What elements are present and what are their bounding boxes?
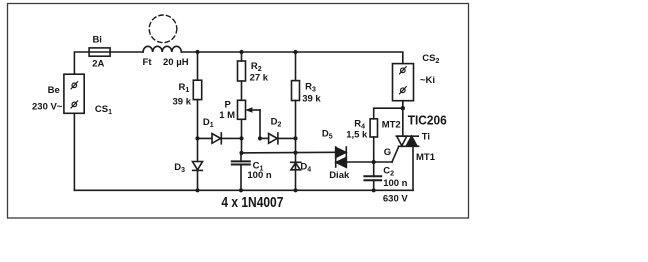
node top rail R2 [239,50,243,54]
svg-text:39 k: 39 k [302,93,321,104]
triac Ti TIC206 [396,136,418,146]
node R1 D1 D3 [195,136,199,140]
diode D1 [198,133,242,144]
inductor Ft 20 uH [143,46,181,52]
svg-text:G: G [384,147,391,158]
wire bottom rail [74,189,413,191]
node C2 rail [372,188,376,192]
wire gate G [392,146,399,162]
capacitor C1 100n [232,153,250,190]
fuse Bi 2A [89,48,110,56]
svg-text:100 n: 100 n [383,178,407,189]
capacitor C2 100n 630V [364,162,381,190]
svg-text:D3: D3 [174,162,185,174]
svg-text:Ti: Ti [422,132,430,143]
wire fuse to inductor [110,51,143,53]
diode D2 [260,133,296,144]
resistor R3 39k [292,52,300,138]
node D4 rail [293,188,297,192]
node C1 diac line [239,151,243,155]
svg-text:100 n: 100 n [247,170,271,181]
wire diac to gate [346,161,392,163]
svg-text:630 V: 630 V [383,193,408,204]
node D2 R3 [293,136,297,140]
svg-text:4 x 1N4007: 4 x 1N4007 [221,194,283,211]
node pot bottom [239,136,243,140]
wire MT1 [412,146,414,190]
node top rail R1 [195,50,199,54]
svg-text:P: P [225,99,232,110]
connector Be CS1 230V [64,74,84,113]
node D4 diac line [293,151,297,155]
diode D3 [193,138,203,190]
svg-text:20 µH: 20 µH [163,57,189,68]
dashed circle ferrite core [149,15,177,43]
svg-text:Be: Be [48,85,60,96]
svg-text:1,5 k: 1,5 k [346,129,368,140]
wire Be top to fuse [74,52,89,74]
potentiometer P 1M [238,100,261,138]
wire pot junction down [241,138,243,153]
svg-text:2A: 2A [92,58,104,69]
svg-text:Bi: Bi [92,34,102,45]
diac D5 [336,147,347,167]
node top rail R3 [293,50,297,54]
svg-text:R1: R1 [179,82,190,94]
svg-text:D4: D4 [300,161,311,173]
svg-text:D5: D5 [322,128,333,140]
node D3 rail [195,188,199,192]
wire inductor to CS2 [181,52,402,64]
svg-text:MT2: MT2 [382,120,401,131]
svg-text:D1: D1 [203,117,214,129]
svg-text:R2: R2 [251,61,262,73]
wire MT2 [402,108,404,136]
node wiper [258,136,262,140]
resistor R2 27k [238,52,246,100]
svg-text:27 k: 27 k [250,73,269,84]
resistor R1 39k [193,52,201,138]
svg-text:C2: C2 [383,165,394,177]
svg-text:Diak: Diak [329,170,350,181]
node C1 rail [239,188,243,192]
svg-text:R3: R3 [305,81,316,93]
svg-text:TIC206: TIC206 [408,113,447,128]
node CS2 MT2 [401,106,405,110]
svg-text:230 V~: 230 V~ [32,102,63,113]
resistor R4 1.5k [370,108,403,162]
svg-text:D2: D2 [271,116,282,128]
connector CS2 Ki [393,64,414,109]
svg-text:~Ki: ~Ki [420,75,435,86]
wire to diac [242,151,336,154]
diode D4 [291,138,301,190]
svg-text:CS2: CS2 [422,53,439,65]
node R4 diac gate C2 [372,160,376,164]
svg-text:MT1: MT1 [416,152,436,163]
svg-text:1 M: 1 M [219,110,235,121]
svg-text:CS1: CS1 [95,104,112,116]
wire Be bottom to rail [73,113,75,190]
svg-text:39 k: 39 k [173,97,192,108]
svg-text:Ft: Ft [143,57,153,68]
